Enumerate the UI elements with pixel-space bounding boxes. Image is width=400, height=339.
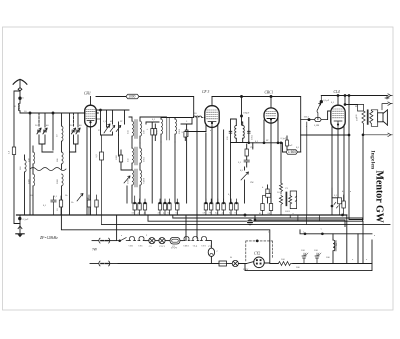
wire: [39, 135, 45, 152]
output terminal: [385, 96, 389, 100]
svg-text:5H: 5H: [335, 243, 338, 246]
wire: [74, 135, 79, 152]
wire verticals left section: [30, 113, 78, 215]
wires CL4 down: [332, 125, 344, 203]
svg-text:0,1: 0,1: [228, 193, 232, 196]
node bus dots: [29, 112, 54, 114]
wire: [181, 123, 192, 125]
svg-text:333: 333: [127, 130, 130, 134]
svg-text:C: C: [217, 250, 219, 253]
trimmer C4: [76, 128, 80, 134]
resistor R5 1500 horiz: [286, 150, 298, 154]
resistor R8 0,5M hexagon: [301, 118, 328, 122]
svg-text:166: 166: [56, 158, 59, 162]
wire AF coupling: [280, 143, 282, 183]
osc coil right: [243, 126, 245, 139]
svg-text:0,1: 0,1: [152, 118, 156, 121]
dial lamp: [208, 248, 214, 263]
coil L4 100: [33, 146, 35, 169]
coil L2: [62, 126, 64, 152]
speaker magnet: [378, 113, 383, 122]
svg-text:A,0: A,0: [95, 154, 98, 158]
svg-text:5: 5: [146, 128, 149, 130]
dashed box: [246, 241, 273, 261]
tube U3 CBC1: [264, 97, 278, 124]
svg-text:1 500: 1 500: [288, 150, 296, 154]
wire step e: [300, 230, 372, 234]
svg-text:0,5: 0,5: [296, 146, 300, 149]
svg-text:41: 41: [259, 212, 262, 215]
svg-text:8: 8: [15, 105, 17, 108]
svg-text:a: a: [350, 190, 352, 193]
cluster D: [204, 199, 225, 215]
svg-text:x: x: [366, 258, 368, 261]
AF loop: [290, 191, 296, 209]
svg-text:1013: 1013: [285, 210, 291, 213]
switch slash: [117, 238, 129, 241]
svg-text:CL4: CL4: [193, 244, 198, 247]
IFT2 coils: [161, 118, 192, 204]
wire step b: [148, 215, 363, 221]
wire rail B: [349, 135, 363, 220]
junction dots on bus clusters: [134, 202, 136, 204]
AF winding secondary: [289, 196, 292, 204]
svg-text:0,1µF: 0,1µF: [323, 99, 329, 102]
svg-text:CBC1: CBC1: [183, 244, 190, 247]
heater chain: [128, 236, 211, 248]
svg-text:161: 161: [19, 166, 22, 170]
resistor R3: [119, 150, 132, 170]
svg-text:04: 04: [176, 211, 179, 214]
coil L5 1000: [33, 169, 35, 215]
B+ rail 2: [212, 97, 301, 153]
antenna A: [13, 79, 27, 103]
svg-text:1M: 1M: [250, 181, 254, 184]
capacitor C9: [184, 132, 206, 141]
svg-text:100pF: 100pF: [243, 112, 250, 115]
right risers: [347, 215, 372, 264]
svg-text:a: a: [306, 125, 308, 128]
svg-text:a: a: [293, 212, 295, 215]
svg-text:0,5M: 0,5M: [314, 124, 320, 127]
transformer core: [367, 110, 369, 124]
svg-text:0,1: 0,1: [43, 204, 47, 207]
svg-text:C1: C1: [162, 245, 166, 248]
choke vertical: [333, 234, 336, 264]
svg-text:a: a: [121, 234, 123, 237]
terminal fork top: [384, 94, 392, 97]
svg-text:a: a: [374, 234, 376, 237]
cathode wire down: [87, 126, 91, 216]
wire antenna to bus: [20, 111, 85, 113]
svg-text:100: 100: [301, 249, 305, 252]
IFT1b coils 1517: [132, 143, 142, 170]
svg-text:1013: 1013: [250, 134, 253, 140]
svg-text:C1: C1: [149, 245, 153, 248]
wire plate rail: [96, 97, 126, 114]
capacitor C12 1nF: [286, 136, 289, 150]
svg-text:04: 04: [168, 211, 171, 214]
trimmer C1: [37, 128, 41, 134]
svg-text:5F: 5F: [203, 211, 206, 214]
svg-text:1k: 1k: [71, 201, 74, 204]
wire: [146, 122, 159, 124]
svg-text:10565: 10565: [127, 177, 130, 184]
svg-text:40: 40: [46, 124, 49, 127]
svg-text:CF3: CF3: [138, 244, 143, 247]
wire: [283, 151, 301, 153]
tube U1 CH1: [85, 97, 97, 127]
svg-text:2F: 2F: [120, 120, 123, 123]
wire antenna branch left: [14, 91, 20, 224]
svg-text:ZF=128kHz: ZF=128kHz: [40, 236, 58, 240]
coil L7 0000: [62, 174, 64, 215]
minus terminal: [247, 219, 253, 225]
svg-text:30: 30: [56, 134, 59, 137]
svg-text:04: 04: [229, 211, 232, 214]
coil L3 161: [25, 155, 27, 215]
svg-text:41: 41: [163, 211, 166, 214]
svg-text:Mentor GW: Mentor GW: [374, 171, 385, 223]
cluster A: [133, 196, 147, 215]
svg-text:00: 00: [194, 112, 197, 115]
wire step0: [255, 215, 345, 227]
wire: [264, 262, 278, 265]
svg-text:500: 500: [281, 258, 285, 261]
svg-text:Si: Si: [230, 256, 232, 259]
svg-text:220V: 220V: [243, 268, 249, 271]
trimmer C5: [110, 126, 115, 132]
svg-text:C3: C3: [285, 187, 289, 190]
svg-text:30: 30: [35, 124, 38, 127]
wire step a: [173, 215, 363, 221]
svg-text:0,1: 0,1: [334, 194, 338, 197]
lamp 2: [232, 260, 254, 266]
svg-text:73000: 73000: [143, 177, 146, 184]
electrolytic 1: [302, 253, 308, 264]
capacitor C13 + switch S3: [320, 101, 322, 103]
svg-text:45: 45: [144, 211, 147, 214]
svg-text:41: 41: [138, 211, 141, 214]
cathode wires tube2: [206, 124, 224, 203]
trimmer C3: [71, 128, 75, 134]
svg-text:1000: 1000: [128, 95, 135, 99]
svg-text:101: 101: [226, 136, 229, 140]
svg-text:6: 6: [23, 97, 25, 100]
transformer loop: [371, 110, 377, 127]
bottom second line: [245, 264, 372, 271]
svg-text:1013: 1013: [143, 156, 146, 162]
svg-text:04: 04: [268, 212, 271, 215]
svg-text:CL4: CL4: [334, 90, 340, 94]
wire step c: [102, 223, 391, 225]
svg-text:101: 101: [355, 114, 358, 118]
svg-text:2: 2: [146, 234, 148, 237]
coil L6 166: [62, 152, 64, 169]
osc trim caps: [229, 131, 250, 133]
left bottom components: [51, 135, 104, 224]
capacitor C7b: [154, 124, 157, 141]
coil L1: [19, 103, 21, 111]
speaker cone: [383, 110, 387, 126]
svg-text:1M: 1M: [250, 146, 254, 149]
wire: [139, 97, 194, 118]
svg-text:41: 41: [222, 211, 225, 214]
svg-text:4: 4: [262, 186, 264, 189]
svg-text:CF 3: CF 3: [202, 90, 209, 94]
svg-text:0,1: 0,1: [238, 161, 242, 164]
svg-text:50: 50: [132, 211, 135, 214]
wires tube3 down: [264, 118, 278, 203]
svg-text:0,5: 0,5: [240, 169, 244, 172]
svg-text:5k: 5k: [65, 194, 68, 197]
wire grid network: [96, 109, 129, 135]
tube U4 CL4: [331, 96, 345, 129]
svg-text:6F: 6F: [266, 139, 269, 142]
svg-text:500: 500: [296, 266, 300, 269]
ground bus: [17, 214, 347, 216]
electrolytic 2: [315, 253, 321, 264]
capacitor C8: [185, 124, 188, 203]
resistor R9 zigzag: [280, 183, 283, 194]
resistor R2 1000: [126, 94, 139, 99]
svg-text:CBC1: CBC1: [265, 91, 274, 95]
wire stubs: [290, 215, 319, 224]
wire mid: [42, 151, 76, 153]
cluster C: [176, 199, 179, 215]
zigzag resistor 500: [278, 262, 292, 266]
wire speaker top: [345, 96, 358, 105]
terminal fork mid: [382, 102, 392, 110]
svg-text:50: 50: [56, 208, 59, 211]
svg-text:01: 01: [235, 211, 238, 214]
cluster E: [229, 199, 238, 215]
ground symbol: [16, 215, 24, 237]
svg-text:40: 40: [79, 124, 82, 127]
svg-text:30: 30: [70, 124, 73, 127]
wire heater feed: [117, 118, 197, 241]
svg-text:x: x: [321, 228, 323, 231]
IFT1a coils 333: [129, 117, 167, 148]
secondary winding: [370, 111, 373, 124]
value labels: [8, 97, 359, 262]
bottom wire: [118, 263, 219, 265]
fuse: [219, 261, 232, 266]
svg-text:151: 151: [127, 158, 130, 162]
capacitor C7: [151, 122, 154, 203]
trimmer C2: [43, 128, 47, 134]
switch arrow S2: [124, 176, 130, 183]
svg-text:x: x: [352, 258, 354, 261]
svg-text:1000: 1000: [28, 178, 31, 184]
svg-text:1nF: 1nF: [289, 144, 293, 147]
extra tiny labels: [24, 101, 376, 271]
svg-text:CY2: CY2: [254, 252, 260, 256]
pot arrow P1: [104, 124, 110, 133]
IFT1c coils 10565: [132, 169, 142, 203]
svg-text:0,1µF: 0,1µF: [281, 137, 287, 140]
detector line: [253, 142, 283, 152]
plug pair bottom: [90, 261, 118, 266]
svg-text:100,1: 100,1: [304, 116, 310, 119]
B+ rail 3: [321, 95, 387, 97]
svg-text:1,0: 1,0: [8, 150, 11, 154]
pot arrow P2: [241, 167, 249, 203]
wire: [126, 186, 128, 203]
cluster B: [158, 199, 171, 215]
wire osc feed: [241, 97, 243, 126]
svg-text:Ingelen: Ingelen: [370, 151, 376, 170]
rectifier CY2 socket: [254, 257, 265, 268]
resistor R6: [266, 185, 269, 203]
svg-text:0,1: 0,1: [331, 101, 335, 104]
svg-text:CY: CY: [208, 245, 212, 248]
svg-text:5000: 5000: [115, 154, 118, 160]
series coil L8: [192, 116, 203, 124]
svg-text:CY2: CY2: [201, 244, 206, 247]
svg-text:?W: ?W: [92, 248, 97, 252]
bottom line right: [293, 263, 372, 265]
cluster F: [261, 193, 273, 215]
resistor R left 1,0: [12, 147, 15, 155]
AF transformer core: [285, 193, 287, 206]
trimmer C6: [116, 126, 121, 132]
junction dots lower: [304, 233, 306, 235]
field coil winding: [362, 105, 365, 136]
svg-text:0,1: 0,1: [54, 195, 58, 198]
plug pair top: [92, 238, 117, 243]
svg-text:CH1: CH1: [84, 92, 91, 96]
resistor R4: [245, 144, 248, 160]
wire joins: [101, 124, 125, 156]
svg-text:5: 5: [186, 120, 188, 123]
svg-text:CH1: CH1: [129, 244, 134, 247]
wire osc down: [231, 143, 253, 204]
AF winding primary: [279, 196, 282, 216]
terminal fork bottom: [363, 133, 392, 136]
right bottom components above bus: [331, 188, 345, 215]
svg-text:100: 100: [326, 256, 330, 259]
osc frame: [231, 118, 249, 143]
wire grid tube2: [204, 117, 207, 119]
osc coil left: [235, 126, 237, 139]
wire step d: [61, 215, 269, 262]
svg-text:50: 50: [277, 191, 280, 194]
field coil loop: [358, 105, 364, 112]
junction dot: [254, 219, 256, 221]
svg-text:0000: 0000: [56, 178, 59, 184]
band switch wavy: [30, 168, 66, 171]
wire rail A: [348, 96, 350, 220]
tube U2 CF3: [205, 97, 219, 128]
capacitor C11: [244, 160, 249, 167]
svg-text:100: 100: [314, 249, 318, 252]
svg-text:0,1µF: 0,1µF: [23, 218, 29, 221]
